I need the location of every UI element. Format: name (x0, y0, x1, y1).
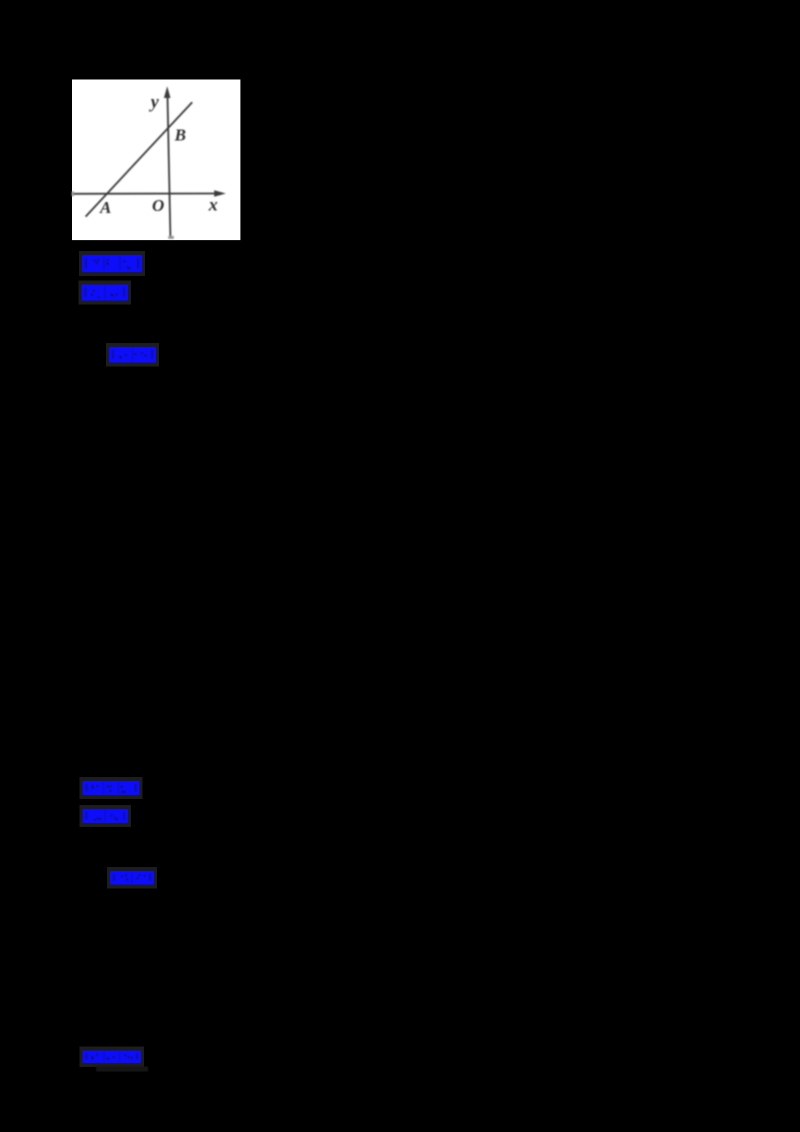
blue marker 6 halo (107, 867, 157, 889)
blue marker 5 halo (80, 805, 132, 827)
blue marker 3 (detail tag, indented) (109, 347, 156, 363)
line AB (86, 102, 193, 216)
blue marker 2 halo (79, 281, 132, 305)
blue marker 1 halo (79, 251, 145, 276)
y-axis arrowhead (164, 86, 171, 98)
axis bottom nub (168, 236, 174, 239)
x-axis arrowhead (214, 190, 226, 197)
blue marker 7 (key-point tag) (83, 1051, 142, 1064)
graph figure white panel (72, 80, 240, 241)
blue marker 3 halo (106, 343, 159, 367)
y-axis (168, 97, 171, 238)
blue marker 7 halo (80, 1047, 145, 1068)
faint residue line under marker 7 (96, 1067, 148, 1072)
svg-text:y: y (149, 91, 160, 111)
blue marker 2 (analysis tag) (82, 285, 129, 301)
blue marker 6 (detail tag, block 2, indented) (110, 871, 154, 885)
blue marker 5 (analysis tag, block 2) (83, 809, 129, 823)
svg-text:B: B (174, 126, 186, 145)
svg-text:O: O (152, 196, 164, 215)
blue marker 1 (answer tag) (82, 255, 142, 272)
blue marker 4 halo (80, 777, 143, 799)
blue marker 4 (answer tag, block 2) (83, 781, 140, 795)
x-axis (72, 193, 215, 195)
svg-text:x: x (208, 195, 218, 215)
axis left nub (72, 191, 74, 196)
svg-text:A: A (99, 198, 111, 217)
